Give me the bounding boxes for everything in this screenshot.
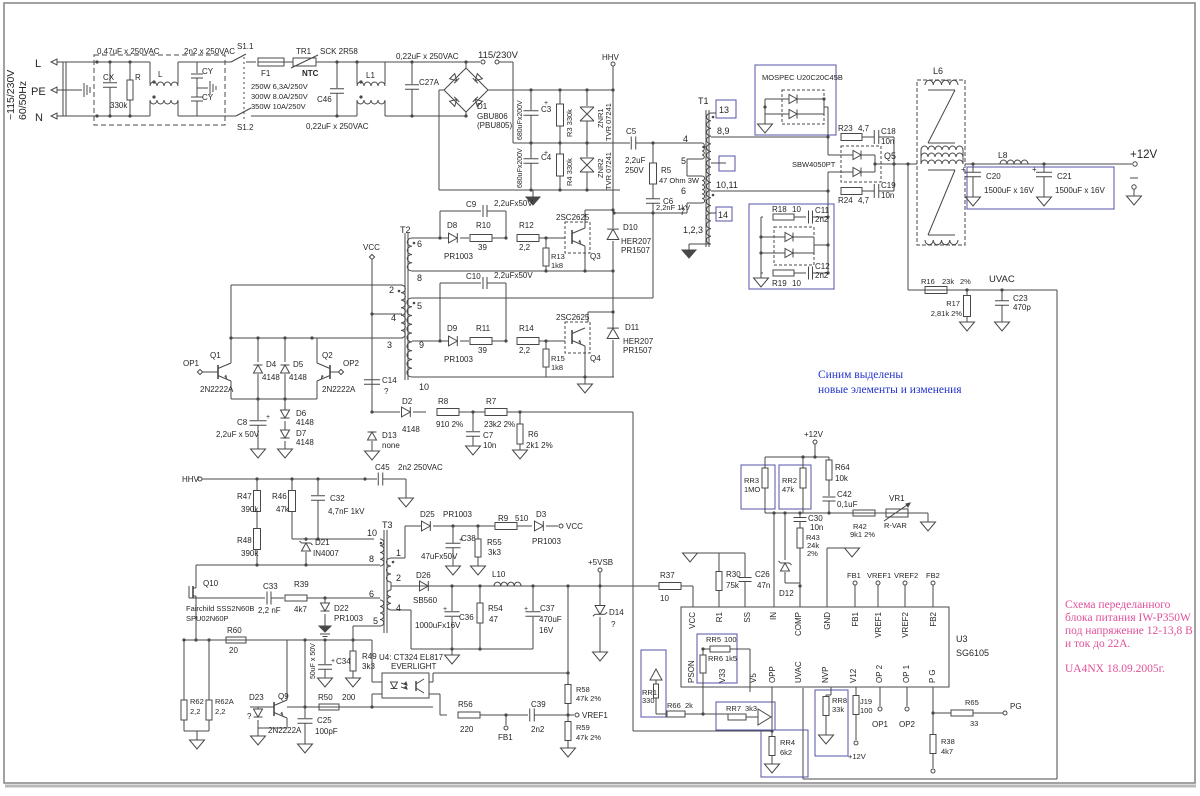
svg-text:OP2: OP2 xyxy=(343,359,360,368)
wire T2 pin4 tap xyxy=(372,313,402,315)
bridge rectifier D1 xyxy=(444,68,488,112)
svg-text:4: 4 xyxy=(391,313,396,323)
svg-text:+12V: +12V xyxy=(804,430,824,439)
svg-text:2N2222A: 2N2222A xyxy=(322,385,356,394)
diode D5 4148 xyxy=(284,338,286,362)
blue box R18 R19 snubber xyxy=(749,204,834,289)
inductor L common-mode choke xyxy=(149,62,151,84)
switch gang dashed link xyxy=(243,57,245,121)
transformer T3 right winding 1-2-4 xyxy=(386,558,391,582)
diode D11 HER207 xyxy=(607,328,619,338)
svg-text:47k: 47k xyxy=(276,505,290,514)
svg-text:C37: C37 xyxy=(540,604,555,613)
svg-text:под напряжение 12-13,8 В: под напряжение 12-13,8 В xyxy=(1065,625,1193,637)
resistor R55 3k3 xyxy=(477,526,479,539)
svg-text:10: 10 xyxy=(792,279,801,288)
svg-text:R60: R60 xyxy=(227,626,242,635)
svg-text:100: 100 xyxy=(860,706,873,715)
diode D8 PR1003 xyxy=(449,233,458,243)
svg-text:0,22uF x 250VAC: 0,22uF x 250VAC xyxy=(396,52,459,61)
resistor R7 23k2 2% xyxy=(485,409,507,416)
resistor R60 20 xyxy=(226,637,246,643)
terminal minus output xyxy=(1130,177,1138,179)
capacitor C37 470uF xyxy=(532,586,534,611)
ground C38 xyxy=(446,566,461,575)
capacitor C10 bypass xyxy=(439,283,441,341)
svg-text:?: ? xyxy=(384,387,389,396)
svg-text:R39: R39 xyxy=(294,580,309,589)
resistor R62 2,2 xyxy=(183,640,185,700)
blue box C20 C21 xyxy=(967,167,1114,209)
svg-text:R16: R16 xyxy=(921,277,935,286)
svg-text:C30: C30 xyxy=(808,514,823,523)
svg-text:RR8: RR8 xyxy=(832,696,847,705)
capacitor C23 470p xyxy=(1001,290,1003,301)
wire snubber mid out xyxy=(814,244,828,246)
svg-text:Q2: Q2 xyxy=(322,351,333,360)
svg-text:R13: R13 xyxy=(551,252,565,261)
svg-text:Q3: Q3 xyxy=(590,252,601,261)
transformer T2 right winding 5-9-10 xyxy=(407,298,412,377)
wire Q9 emitter to ground xyxy=(286,718,288,728)
ground D22 xyxy=(319,626,331,632)
ground Q9 D23 xyxy=(251,736,266,745)
capacitor CX xyxy=(109,62,111,82)
wire RR5 to V5 xyxy=(749,649,751,692)
svg-text:FB2: FB2 xyxy=(929,611,938,626)
blue box RR5 RR6 xyxy=(697,634,737,683)
svg-text:D9: D9 xyxy=(447,324,458,333)
capacitor C11 2n2 xyxy=(808,211,810,224)
svg-text:D3: D3 xyxy=(536,510,547,519)
svg-text:SS: SS xyxy=(743,612,752,623)
ground T1 1,2,3 xyxy=(682,250,696,258)
svg-text:680uFx200V: 680uFx200V xyxy=(517,100,524,140)
node 14 blue box xyxy=(716,207,732,221)
capacitor C18 10n xyxy=(862,136,874,138)
ground bottom rail xyxy=(532,190,534,197)
svg-text:SPU02N60P: SPU02N60P xyxy=(186,614,229,623)
diode D25 PR1003 xyxy=(422,521,431,531)
svg-text:1k8: 1k8 xyxy=(551,261,563,270)
dashed box MOSPEC diodes xyxy=(782,90,824,124)
svg-text:C26: C26 xyxy=(755,570,770,579)
svg-text:4148: 4148 xyxy=(262,373,280,382)
svg-text:R15: R15 xyxy=(551,354,565,363)
capacitor C34 50uF xyxy=(324,640,326,664)
fuse F1 xyxy=(258,58,284,66)
svg-text:NVP: NVP xyxy=(821,667,830,683)
wire R58 chain xyxy=(567,586,569,685)
svg-text:PR1003: PR1003 xyxy=(444,252,473,261)
svg-text:+: + xyxy=(443,606,447,613)
arrow RR7 xyxy=(758,709,771,725)
svg-text:1k8: 1k8 xyxy=(551,363,563,372)
svg-text:10: 10 xyxy=(660,594,669,603)
wire snubber anode bus xyxy=(760,217,762,273)
wire Q5 lower input xyxy=(827,172,829,191)
blue box RR2 xyxy=(779,465,811,509)
svg-text:47n: 47n xyxy=(757,581,770,590)
svg-text:1500uF x 16V: 1500uF x 16V xyxy=(984,186,1034,195)
svg-text:33k: 33k xyxy=(832,705,844,714)
svg-text:L10: L10 xyxy=(492,570,506,579)
blue box RR8 xyxy=(815,690,848,756)
svg-text:39: 39 xyxy=(478,346,487,355)
wire VR1 to ground xyxy=(908,512,928,514)
wire R62 R62A common xyxy=(184,730,209,732)
ground MOSPEC xyxy=(764,114,766,124)
svg-text:FB1: FB1 xyxy=(498,733,513,742)
svg-text:8: 8 xyxy=(369,554,374,564)
capacitor C6 2,2nF xyxy=(646,198,660,200)
ground PE xyxy=(83,83,85,97)
svg-text:2n2: 2n2 xyxy=(531,725,545,734)
svg-text:1,2,3: 1,2,3 xyxy=(683,225,703,235)
wire Q3 collector xyxy=(584,210,586,228)
svg-text:FB2: FB2 xyxy=(926,571,940,580)
svg-text:FB1: FB1 xyxy=(851,611,860,626)
varistor ZNR2 xyxy=(586,143,588,157)
svg-text:TVR 07241: TVR 07241 xyxy=(604,103,613,141)
svg-text:Схема переделанного: Схема переделанного xyxy=(1065,599,1171,611)
diode snubber lower xyxy=(785,249,793,258)
svg-text:2SC2625: 2SC2625 xyxy=(556,313,590,322)
wire 5VSB rail xyxy=(391,585,431,587)
ground R6 xyxy=(513,450,528,459)
svg-text:2%: 2% xyxy=(807,549,818,558)
svg-text:C32: C32 xyxy=(330,494,345,503)
svg-text:C21: C21 xyxy=(1057,172,1072,181)
transformer T1 primary winding 6-7 xyxy=(702,176,705,203)
wire T2 pin8 rail xyxy=(412,270,614,272)
wire U4 cathode xyxy=(372,693,382,695)
svg-text:C33: C33 xyxy=(263,582,278,591)
svg-text:J19: J19 xyxy=(860,697,872,706)
svg-text:R12: R12 xyxy=(519,221,534,230)
IC U3 SG6105 box xyxy=(681,607,949,687)
svg-text:3: 3 xyxy=(387,340,392,350)
svg-text:D26: D26 xyxy=(416,571,431,580)
svg-text:6: 6 xyxy=(369,589,374,599)
wire Q9 collector junction xyxy=(304,640,306,707)
potentiometer VR1 R-VAR xyxy=(886,509,908,517)
svg-text:C9: C9 xyxy=(466,200,477,209)
terminal OP2 bottom xyxy=(906,687,908,706)
diode D12 xyxy=(784,513,786,560)
resistor R6 2k1 2% xyxy=(519,412,521,424)
svg-text:PSON: PSON xyxy=(687,660,696,683)
svg-text:L: L xyxy=(158,70,163,79)
svg-text:4k7: 4k7 xyxy=(941,747,953,756)
ground VR1 xyxy=(921,522,936,531)
svg-text:20: 20 xyxy=(229,646,238,655)
wire bridge minus to bottom rail xyxy=(439,89,444,91)
svg-text:C46: C46 xyxy=(317,95,332,104)
svg-text:1MO: 1MO xyxy=(744,485,760,494)
diode D26 SB560 xyxy=(420,581,429,591)
svg-text:C45: C45 xyxy=(375,463,390,472)
svg-text:TR1: TR1 xyxy=(296,47,312,56)
wire Q9 base row xyxy=(287,706,433,708)
svg-text:2,2 nF: 2,2 nF xyxy=(258,606,281,615)
svg-text:F1: F1 xyxy=(261,69,271,78)
diode MOSPEC lower xyxy=(789,110,797,119)
svg-text:U3: U3 xyxy=(956,634,968,644)
svg-text:C38: C38 xyxy=(461,534,476,543)
svg-text:10,11: 10,11 xyxy=(716,180,738,190)
wire Q2 emitter xyxy=(316,381,318,399)
svg-text:4148: 4148 xyxy=(289,373,307,382)
ground C34 xyxy=(318,678,333,687)
blue box RR1 xyxy=(641,650,666,717)
resistor R43 24k 2% xyxy=(797,528,803,548)
svg-text:C36: C36 xyxy=(459,613,474,622)
svg-text:VCC: VCC xyxy=(566,522,583,531)
svg-text:3k3: 3k3 xyxy=(488,548,501,557)
wire T3 pin1 elbow to D25 xyxy=(391,557,405,559)
svg-text:2,2uFx50V: 2,2uFx50V xyxy=(494,271,533,280)
svg-text:+: + xyxy=(266,414,270,421)
svg-text:SG6105: SG6105 xyxy=(956,648,989,658)
svg-text:R54: R54 xyxy=(488,604,503,613)
svg-text:UVAC: UVAC xyxy=(989,274,1015,285)
svg-text:RR2: RR2 xyxy=(782,476,797,485)
resistor R49 3k3 xyxy=(352,640,354,651)
svg-text:T1: T1 xyxy=(698,96,709,106)
svg-text:NTC: NTC xyxy=(302,69,319,78)
svg-text:115/230V: 115/230V xyxy=(478,50,519,61)
svg-text:C5: C5 xyxy=(626,127,637,136)
svg-text:VCC: VCC xyxy=(363,243,380,252)
svg-text:47: 47 xyxy=(489,615,498,624)
svg-text:2n2: 2n2 xyxy=(815,215,829,224)
wire C34/R49 rail xyxy=(184,639,372,641)
svg-text:C42: C42 xyxy=(837,490,852,499)
wire VCC pin elbow xyxy=(692,586,694,607)
L6 middle windings xyxy=(921,146,963,150)
svg-text:PE: PE xyxy=(31,86,46,98)
svg-text:23k: 23k xyxy=(942,277,954,286)
wire N line xyxy=(57,115,150,117)
diode D14 ? xyxy=(599,586,601,605)
svg-text:75k: 75k xyxy=(726,581,740,590)
svg-text:OP1: OP1 xyxy=(183,359,200,368)
svg-text:R10: R10 xyxy=(476,221,491,230)
svg-text:5: 5 xyxy=(373,616,378,626)
svg-text:10n: 10n xyxy=(810,523,823,532)
resistor R30 75k xyxy=(718,553,720,572)
svg-text:IN4007: IN4007 xyxy=(313,549,339,558)
ground snubber xyxy=(760,273,762,278)
resistor RR2 47k xyxy=(802,457,804,468)
transformer T3 left winding 10-8 xyxy=(380,539,384,566)
svg-text:RR7: RR7 xyxy=(726,704,741,713)
wire U4 out top xyxy=(429,681,433,683)
diode Q5 upper xyxy=(853,151,861,160)
capacitor C42 0,1uF xyxy=(823,496,836,498)
diode D13 none xyxy=(368,432,377,440)
node 13 blue box xyxy=(716,100,736,118)
svg-text:R7: R7 xyxy=(486,397,497,406)
resistor R4 330k xyxy=(559,143,561,154)
capacitor C7 10n xyxy=(472,412,474,431)
svg-text:PR1003: PR1003 xyxy=(532,537,561,546)
resistor R3 330k xyxy=(559,90,561,104)
capacitor C21 1500uF xyxy=(1043,164,1045,172)
svg-text:2,2uF x 50V: 2,2uF x 50V xyxy=(216,430,260,439)
arrow RR1 xyxy=(650,669,662,680)
wire Q2 collector xyxy=(316,338,318,363)
diode D6 4148 xyxy=(284,399,286,410)
wire MOSPEC output xyxy=(824,106,828,108)
wire OPP drop xyxy=(771,687,773,731)
diode D10 HER207 xyxy=(607,229,619,239)
svg-text:23k2 2%: 23k2 2% xyxy=(484,420,515,429)
svg-text:250V: 250V xyxy=(625,166,644,175)
svg-text:0,22uF x 250VAC: 0,22uF x 250VAC xyxy=(306,122,369,131)
wire Q1 collector xyxy=(230,338,232,363)
U4 LED xyxy=(391,682,398,689)
svg-text:14: 14 xyxy=(718,210,728,220)
svg-text:D10: D10 xyxy=(623,223,638,232)
wire Q4 collector elbow xyxy=(588,311,613,313)
svg-text:4: 4 xyxy=(683,134,688,144)
svg-text:10: 10 xyxy=(367,528,377,538)
svg-text:OP2: OP2 xyxy=(899,720,916,729)
svg-text:C23: C23 xyxy=(1013,294,1028,303)
capacitor C4 xyxy=(530,143,532,158)
svg-text:R59: R59 xyxy=(576,723,590,732)
diode D4 4148 xyxy=(257,338,259,362)
svg-text:V33: V33 xyxy=(718,668,727,683)
svg-text:4: 4 xyxy=(396,603,401,613)
svg-text:GND: GND xyxy=(823,612,832,630)
resistor R5 47 Ohm 3W xyxy=(652,143,654,163)
diode D7 4148 xyxy=(284,421,286,430)
svg-text:4,7nF 1kV: 4,7nF 1kV xyxy=(328,507,365,516)
wire Q5 output to L6 xyxy=(875,163,917,165)
svg-text:D6: D6 xyxy=(296,409,307,418)
svg-text:R46: R46 xyxy=(272,492,287,501)
dashed EMI filter box xyxy=(94,55,225,125)
transformer T1 primary winding 4-5 xyxy=(702,143,704,159)
svg-text:VREF1: VREF1 xyxy=(867,571,891,580)
svg-text:R-VAR: R-VAR xyxy=(884,521,907,530)
svg-text:MOSPEC U20C20C45B: MOSPEC U20C20C45B xyxy=(762,73,843,82)
L6 top winding xyxy=(925,80,958,85)
wire output sense drop xyxy=(907,164,909,290)
svg-text:200: 200 xyxy=(342,693,356,702)
svg-text:RR6: RR6 xyxy=(708,654,723,663)
diode D9 PR1003 xyxy=(449,336,458,346)
svg-text:1500uF x 16V: 1500uF x 16V xyxy=(1055,186,1105,195)
svg-text:390k: 390k xyxy=(241,505,259,514)
ground C21 xyxy=(1037,197,1052,206)
svg-text:VREF2: VREF2 xyxy=(894,571,918,580)
svg-text:VREF1: VREF1 xyxy=(874,611,883,637)
svg-text:+: + xyxy=(524,606,528,613)
svg-text:(PBU805): (PBU805) xyxy=(477,121,512,130)
svg-text:2k1 2%: 2k1 2% xyxy=(526,441,553,450)
wire T1 pin5 to pin6 link xyxy=(687,158,702,160)
terminal VCC aux xyxy=(559,524,563,528)
svg-text:C25: C25 xyxy=(317,716,332,725)
resistor RR3 1MO xyxy=(764,457,766,468)
resistor R48 390k xyxy=(254,529,261,550)
svg-text:T3: T3 xyxy=(382,520,393,530)
wire U4 out bottom xyxy=(429,693,440,695)
wire Q3 emitter xyxy=(584,246,586,271)
diode D23 ? xyxy=(250,706,274,708)
svg-text:V12: V12 xyxy=(849,668,858,683)
svg-text:R1: R1 xyxy=(715,611,724,622)
svg-text:C11: C11 xyxy=(815,206,830,215)
svg-text:IN: IN xyxy=(769,612,778,620)
wire +12V output rail xyxy=(965,163,1132,165)
svg-text:R18: R18 xyxy=(772,205,787,214)
svg-text:8,9: 8,9 xyxy=(717,126,730,136)
resistor R46 47k xyxy=(291,479,293,491)
svg-text:D22: D22 xyxy=(334,604,349,613)
svg-text:300W 8.0A/250V: 300W 8.0A/250V xyxy=(251,92,308,101)
svg-text:R6: R6 xyxy=(528,430,539,439)
ground C45 xyxy=(399,498,414,507)
svg-text:4148: 4148 xyxy=(296,418,314,427)
svg-text:L8: L8 xyxy=(998,150,1008,160)
resistor R14 2,2 xyxy=(517,338,539,345)
svg-text:C14: C14 xyxy=(382,376,397,385)
capacitor C14 ? xyxy=(364,379,380,381)
transformer T2 right winding 6-8 xyxy=(407,238,412,271)
svg-text:47k 2%: 47k 2% xyxy=(576,733,601,742)
diode D21 IN4007 xyxy=(305,539,307,541)
wire Q5 upper input xyxy=(827,137,829,155)
svg-text:R62A: R62A xyxy=(215,697,234,706)
svg-text:R19: R19 xyxy=(772,279,787,288)
diode Q5 lower xyxy=(853,168,861,177)
svg-text:SBW4050PT: SBW4050PT xyxy=(792,160,836,169)
svg-text:910 2%: 910 2% xyxy=(436,420,463,429)
svg-text:0,1uF: 0,1uF xyxy=(837,500,858,509)
transformer T1 secondary winding xyxy=(707,113,711,244)
svg-text:680uFx200V: 680uFx200V xyxy=(517,148,524,188)
svg-text:PR1003: PR1003 xyxy=(444,355,473,364)
svg-text:COMP: COMP xyxy=(794,612,803,636)
svg-text:2,2nF 1kV: 2,2nF 1kV xyxy=(656,203,690,212)
svg-text:R3 330k: R3 330k xyxy=(565,109,574,137)
svg-text:~115/230V: ~115/230V xyxy=(5,70,17,120)
svg-text:4,7: 4,7 xyxy=(858,124,870,133)
wire UVAC row xyxy=(908,289,1057,291)
svg-text:470p: 470p xyxy=(1013,303,1031,312)
ground Q4 emitter xyxy=(584,377,586,384)
svg-text:R23: R23 xyxy=(838,124,853,133)
svg-text:HER207: HER207 xyxy=(623,337,654,346)
U4 phototransistor xyxy=(415,681,417,691)
svg-text:60/50Hz: 60/50Hz xyxy=(17,81,29,120)
svg-text:+: + xyxy=(1032,165,1037,174)
resistor R10 39 xyxy=(460,237,469,239)
wire C18 elbow to output xyxy=(893,137,895,164)
wire C19 elbow to output xyxy=(893,164,895,191)
resistor R64 10k xyxy=(828,457,830,460)
svg-text:EVERLIGHT: EVERLIGHT xyxy=(391,662,436,671)
svg-text:новые элементы и изменения: новые элементы и изменения xyxy=(818,384,962,396)
svg-text:2%: 2% xyxy=(960,277,971,286)
svg-text:D25: D25 xyxy=(420,510,435,519)
diode D22 PR1003 xyxy=(324,598,326,603)
